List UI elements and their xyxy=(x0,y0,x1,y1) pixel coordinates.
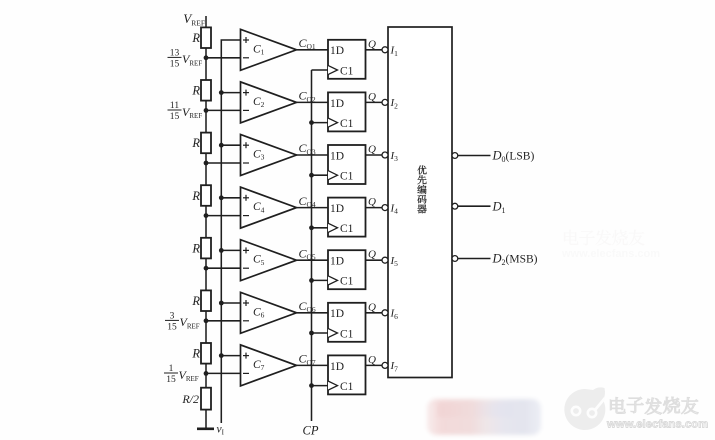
svg-text:C1: C1 xyxy=(340,118,354,130)
node inverter bubble I2 xyxy=(382,99,388,105)
wire CP stub to FF4 clock xyxy=(312,227,329,229)
wire C1 output to FF1 1D xyxy=(297,49,329,51)
flip-flop FF5 box xyxy=(328,250,366,289)
svg-text:R: R xyxy=(191,136,200,150)
node CP bus junction dot row 3 xyxy=(309,173,314,178)
node CP bus junction dot row 5 xyxy=(309,278,314,283)
pin + of C5 xyxy=(243,249,249,251)
watermark logo circle bottom-right xyxy=(564,387,605,430)
pin - of C4 xyxy=(243,215,249,217)
node tap 7 junction dot xyxy=(204,371,209,376)
flip-flop FF6 box xyxy=(328,303,366,342)
node inverter bubble I3 xyxy=(382,152,388,158)
wire CP stub to FF6 clock xyxy=(312,332,329,334)
node inverter bubble I5 xyxy=(382,257,388,263)
watermark 电子发烧友 bottom-right xyxy=(610,397,698,415)
svg-text:1D: 1D xyxy=(330,150,344,162)
node inverter bubble I1 xyxy=(382,47,388,53)
label 11/15 VREF tap xyxy=(168,101,203,122)
svg-text:R: R xyxy=(191,84,200,98)
op-amp comparator C1 xyxy=(241,29,297,70)
label 13/15 VREF tap xyxy=(168,49,203,70)
flip-flop FF1 box xyxy=(328,40,366,79)
node vI bus junction dot row 7 xyxy=(219,353,224,358)
resistor R/2 xyxy=(201,388,211,410)
pin + of C6 xyxy=(243,302,249,304)
wire CP stub to FF3 clock xyxy=(312,174,329,176)
node tap 1 junction dot xyxy=(204,55,209,60)
node inverter bubble I6 xyxy=(382,310,388,316)
ground bar xyxy=(197,427,214,430)
resistor R (ladder #4) xyxy=(201,185,211,206)
svg-text:D2(MSB): D2(MSB) xyxy=(492,252,538,267)
wire Q of FF1 to encoder input xyxy=(366,49,383,51)
svg-text:R/2: R/2 xyxy=(181,392,199,406)
svg-text:15: 15 xyxy=(167,322,177,332)
node vI bus junction dot row 6 xyxy=(219,301,224,306)
op-amp comparator C5 xyxy=(241,240,297,281)
node output bubble D1 xyxy=(452,203,458,209)
resistor R (ladder #5) xyxy=(201,238,211,259)
node output bubble D2 xyxy=(452,256,458,262)
pin - of C3 xyxy=(243,162,249,164)
wire output D0 xyxy=(458,155,491,157)
pin + of C2 xyxy=(243,92,249,94)
svg-text:1D: 1D xyxy=(330,45,344,57)
wire C5 output to FF5 1D xyxy=(297,259,329,261)
pin - of C7 xyxy=(243,372,249,374)
pin C1 caret of FF2 xyxy=(328,118,338,127)
pin - of C2 xyxy=(243,109,249,111)
wire CP bus xyxy=(311,70,313,421)
node vI bus junction dot row 4 xyxy=(219,195,224,200)
svg-text:1D: 1D xyxy=(330,361,344,373)
svg-text:15: 15 xyxy=(170,112,180,122)
wire C2 output to FF2 1D xyxy=(297,101,329,103)
resistor R (ladder #6) xyxy=(201,290,211,311)
flip-flop FF7 box xyxy=(328,355,366,394)
op-amp comparator C6 xyxy=(241,292,297,333)
wire tap 1 to comparator C1 minus input xyxy=(206,57,241,59)
pin C1 caret of FF4 xyxy=(328,223,338,232)
wire Q of FF2 to encoder input xyxy=(366,101,383,103)
wire tap 5 to comparator C5 minus input xyxy=(206,267,241,269)
wire vI stub to C7 plus input xyxy=(221,355,240,357)
svg-text:1D: 1D xyxy=(330,203,344,215)
wire vI stub to C2 plus input xyxy=(221,92,240,94)
wire vI stub to C3 plus input xyxy=(221,144,240,146)
pin C1 caret of FF1 xyxy=(328,65,338,74)
svg-text:Q: Q xyxy=(368,249,376,261)
svg-text:CP: CP xyxy=(303,424,319,438)
watermark faint mid-right xyxy=(561,230,660,260)
svg-text:Q: Q xyxy=(368,196,376,208)
svg-text:R: R xyxy=(191,189,200,203)
pin - of C1 xyxy=(243,57,249,59)
op-amp comparator C3 xyxy=(241,135,297,176)
svg-text:1D: 1D xyxy=(330,98,344,110)
node vI bus junction dot row 5 xyxy=(219,248,224,253)
pin C1 caret of FF7 xyxy=(328,381,338,390)
label 优先编码器 (priority encoder) xyxy=(417,165,426,213)
wire output D1 xyxy=(458,205,491,207)
node tap 4 junction dot xyxy=(204,213,209,218)
pin C1 caret of FF6 xyxy=(328,328,338,337)
svg-text:1D: 1D xyxy=(330,308,344,320)
svg-text:C1: C1 xyxy=(340,328,354,340)
resistor R (ladder #1) xyxy=(201,27,211,48)
op-amp comparator C4 xyxy=(241,187,297,228)
node inverter bubble I4 xyxy=(382,205,388,211)
node tap 5 junction dot xyxy=(204,266,209,271)
flip-flop FF2 box xyxy=(328,92,366,131)
wire tap 6 to comparator C6 minus input xyxy=(206,320,241,322)
resistor R (ladder #7) xyxy=(201,343,211,364)
svg-text:R: R xyxy=(191,241,200,255)
svg-text:15: 15 xyxy=(170,59,180,69)
flip-flop FF3 box xyxy=(328,145,366,184)
svg-text:Q: Q xyxy=(368,144,376,156)
svg-text:www.elecfans.com: www.elecfans.com xyxy=(561,248,660,260)
pin C1 caret of FF3 xyxy=(328,171,338,180)
wire tap 3 to comparator C3 minus input xyxy=(206,162,241,164)
wire C7 output to FF7 1D xyxy=(297,364,329,366)
wire tap 7 to comparator C7 minus input xyxy=(206,372,241,374)
node vI bus junction dot row 2 xyxy=(219,90,224,95)
node inverter bubble I7 xyxy=(382,362,388,368)
svg-text:C1: C1 xyxy=(340,171,354,183)
wire Q of FF7 to encoder input xyxy=(366,364,383,366)
wire vI bus (analog input to + inputs) xyxy=(221,40,240,423)
wire CP stub to FF1 clock xyxy=(312,69,329,71)
node CP bus junction dot row 4 xyxy=(309,225,314,230)
node tap 3 junction dot xyxy=(204,161,209,166)
svg-text:Q: Q xyxy=(368,38,376,50)
pin + of C1 xyxy=(243,39,249,41)
wire tap 4 to comparator C4 minus input xyxy=(206,215,241,217)
svg-text:15: 15 xyxy=(166,375,176,385)
wire Q of FF5 to encoder input xyxy=(366,259,383,261)
node CP bus junction dot row 7 xyxy=(309,383,314,388)
wire Q of FF4 to encoder input xyxy=(366,207,383,209)
node vI bus junction dot row 3 xyxy=(219,143,224,148)
svg-text:C1: C1 xyxy=(340,381,354,393)
svg-text:www.elecfans.com: www.elecfans.com xyxy=(606,419,708,431)
flip-flop FF4 box xyxy=(328,198,366,237)
node tap 6 junction dot xyxy=(204,318,209,323)
priority encoder U1 box xyxy=(388,27,452,378)
pin - of C6 xyxy=(243,320,249,322)
svg-text:D0(LSB): D0(LSB) xyxy=(492,149,535,164)
svg-text:Q: Q xyxy=(368,354,376,366)
resistor R (ladder #3) xyxy=(201,133,211,154)
pin C1 caret of FF5 xyxy=(328,276,338,285)
wire vI stub to C6 plus input xyxy=(221,302,240,304)
wire C6 output to FF6 1D xyxy=(297,312,329,314)
label 3/15 VREF tap xyxy=(165,312,200,333)
wire Q of FF6 to encoder input xyxy=(366,312,383,314)
svg-text:C1: C1 xyxy=(340,223,354,235)
wire CP stub to FF2 clock xyxy=(312,122,329,124)
wire Q of FF3 to encoder input xyxy=(366,154,383,156)
wire ladder vertical xyxy=(205,16,207,428)
op-amp comparator C7 xyxy=(241,345,297,386)
wire C3 output to FF3 1D xyxy=(297,154,329,156)
wire CP stub to FF7 clock xyxy=(312,385,329,387)
op-amp comparator C2 xyxy=(241,82,297,123)
pin + of C3 xyxy=(243,144,249,146)
svg-text:1D: 1D xyxy=(330,256,344,268)
wire tap 2 to comparator C2 minus input xyxy=(206,109,241,111)
blurred censor patch xyxy=(427,399,541,435)
label 1/15 VREF tap xyxy=(164,364,199,385)
svg-text:R: R xyxy=(191,347,200,361)
node output bubble D0 xyxy=(452,153,458,159)
svg-text:Q: Q xyxy=(368,301,376,313)
pin + of C4 xyxy=(243,197,249,199)
resistor R (ladder #2) xyxy=(201,80,211,101)
node CP bus junction dot row 2 xyxy=(309,120,314,125)
node tap 2 junction dot xyxy=(204,108,209,113)
svg-text:C1: C1 xyxy=(340,276,354,288)
wire vI stub to C4 plus input xyxy=(221,197,240,199)
wire CP stub to FF5 clock xyxy=(312,279,329,281)
svg-text:R: R xyxy=(191,294,200,308)
pin + of C7 xyxy=(243,355,249,357)
pin - of C5 xyxy=(243,267,249,269)
wire vI stub to C5 plus input xyxy=(221,249,240,251)
node CP bus junction dot row 6 xyxy=(309,331,314,336)
wire C4 output to FF4 1D xyxy=(297,207,329,209)
svg-text:C1: C1 xyxy=(340,65,354,77)
wire output D2 xyxy=(458,258,491,260)
svg-text:Q: Q xyxy=(368,91,376,103)
svg-text:R: R xyxy=(191,31,200,45)
